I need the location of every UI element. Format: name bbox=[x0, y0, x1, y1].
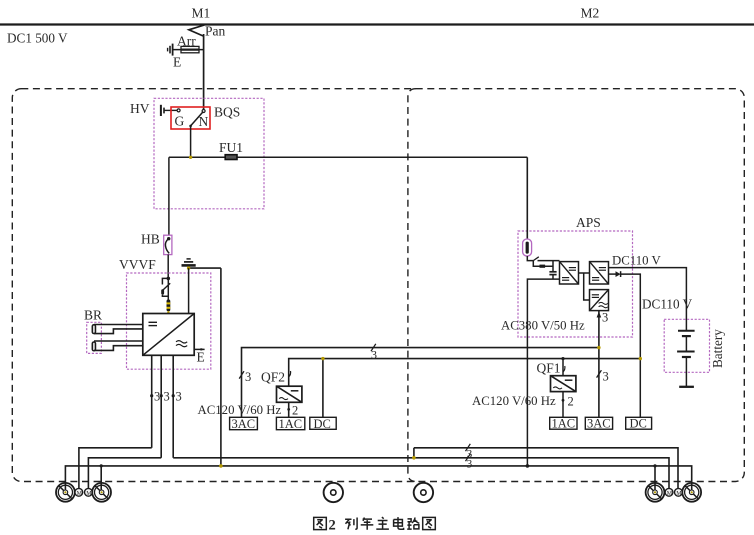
ground E of arrester bbox=[172, 44, 174, 56]
resistor BR1 bbox=[92, 325, 95, 334]
HV earthing contact bars bbox=[161, 105, 177, 116]
node wheel M1 bbox=[100, 464, 103, 467]
ground symbol above VVVF bbox=[182, 259, 196, 268]
filter capacitor APS bbox=[552, 261, 554, 272]
wire phase W bus to M2 motors bbox=[173, 458, 669, 489]
load box 3AC M1 bbox=[230, 417, 258, 429]
inverter U1 box VVVF bbox=[143, 314, 205, 356]
red box GN switch bbox=[171, 107, 210, 129]
phase marks 3 bbox=[150, 394, 153, 397]
caption hanzi TU (图) bbox=[314, 517, 327, 529]
mark 3 on 3AC drop bbox=[239, 371, 244, 378]
svg-text:E: E bbox=[197, 350, 205, 365]
load box 1AC M2 bbox=[550, 417, 577, 429]
load box 3AC M2 bbox=[585, 417, 612, 429]
switch BQS contacts and blade bbox=[169, 109, 527, 157]
mark 2 on QF2 output bbox=[287, 408, 290, 411]
mark 2 on QF1 output bbox=[562, 399, 565, 402]
svg-text:3AC: 3AC bbox=[232, 417, 256, 431]
svg-text:Arr: Arr bbox=[177, 34, 196, 49]
wire horizontal FU1 line to APS bbox=[169, 156, 527, 158]
wire earth node to right riser bbox=[189, 267, 221, 269]
caption hanzi ZHU (主) bbox=[376, 517, 389, 529]
load box 1AC M1 bbox=[276, 417, 304, 429]
fuse FU1 bbox=[225, 155, 237, 160]
svg-text:AC120 V/60 Hz: AC120 V/60 Hz bbox=[472, 394, 556, 408]
wire arrester branch bbox=[173, 49, 204, 51]
fuse F-APS bbox=[523, 239, 532, 256]
svg-text:3AC: 3AC bbox=[587, 417, 611, 431]
battery enclosure box bbox=[664, 319, 709, 372]
arrow mark on AC380 output bbox=[597, 312, 602, 318]
node AC380 bus junction bbox=[597, 346, 600, 349]
wire switch to FU1 line bbox=[190, 126, 192, 157]
blade QF2 bbox=[289, 371, 291, 377]
wire jumper M2 bus bbox=[413, 448, 415, 458]
svg-text:AC380 V/50 Hz: AC380 V/50 Hz bbox=[501, 319, 585, 333]
converter APS-2 DC110 bbox=[590, 262, 609, 284]
BR enclosure box bbox=[87, 322, 102, 353]
svg-text:HV: HV bbox=[130, 101, 150, 116]
svg-text:DC: DC bbox=[314, 417, 331, 431]
mark 3 on phase bus bbox=[466, 454, 471, 461]
svg-text:M: M bbox=[667, 491, 673, 497]
inverter APS-3 AC380 bbox=[590, 290, 609, 311]
svg-text:2: 2 bbox=[568, 395, 574, 409]
svg-text:DC1 500 V: DC1 500 V bbox=[7, 31, 68, 46]
wire QF2 to 1AC bbox=[288, 402, 290, 417]
svg-text:Battery: Battery bbox=[710, 329, 725, 368]
motor M1b bbox=[85, 488, 93, 496]
resistor BR2 bbox=[92, 342, 95, 351]
svg-text:2: 2 bbox=[292, 404, 298, 418]
wire DC110 bus M1 to M2 bbox=[289, 359, 641, 387]
caption hanzi CHE (车) bbox=[361, 518, 374, 530]
svg-text:Pan: Pan bbox=[205, 24, 226, 39]
wire M2 upper bus to motor M2b bbox=[414, 448, 678, 489]
node earth bbox=[187, 266, 190, 269]
node M2 wheel drop bbox=[653, 464, 656, 467]
wire HB to contactor bbox=[167, 255, 169, 279]
wire rail earth bus bbox=[65, 466, 691, 492]
caption hanzi LU (路) bbox=[407, 518, 419, 530]
motor M1a bbox=[75, 488, 83, 496]
load box DC M1 bbox=[310, 417, 336, 429]
svg-text:FU1: FU1 bbox=[219, 140, 243, 155]
wire earth into inverter bbox=[188, 268, 190, 313]
load box DC M2 bbox=[626, 417, 652, 429]
svg-text:M: M bbox=[676, 491, 682, 497]
svg-text:3: 3 bbox=[164, 390, 170, 404]
car body divider dashed M1/M2 bbox=[408, 89, 416, 482]
wire BQS down to HB bbox=[168, 157, 170, 235]
svg-text:3: 3 bbox=[602, 311, 608, 325]
contactor bypass loop inside VVVF bbox=[161, 278, 170, 296]
wire from FU1 line down into APS bbox=[526, 157, 528, 239]
svg-text:DC110 V: DC110 V bbox=[642, 297, 693, 312]
svg-text:BQS: BQS bbox=[214, 105, 240, 120]
wire phase U from inverter bbox=[151, 355, 153, 448]
svg-text:M: M bbox=[77, 491, 83, 497]
wire earth riser down to rail bus bbox=[220, 268, 222, 466]
svg-text:G: G bbox=[175, 114, 185, 129]
blade contact APS bbox=[533, 257, 539, 261]
wire phase V from inverter bbox=[160, 355, 162, 458]
idler wheel M2 bbox=[414, 483, 433, 502]
car body dashed outline M1+M2 bbox=[12, 89, 744, 482]
wire AC380 bus M1 to M2 bbox=[242, 348, 599, 418]
wire AC380 from APS-3 down bbox=[598, 311, 600, 418]
battery B1 plates bbox=[677, 331, 695, 387]
svg-text:APS: APS bbox=[576, 215, 601, 230]
svg-text:M: M bbox=[86, 491, 92, 497]
converter QF1 box bbox=[551, 376, 576, 392]
wires BR to inverter bbox=[94, 325, 143, 351]
motor M2a bbox=[665, 488, 673, 496]
idler wheel M1 bbox=[324, 483, 343, 502]
wire DC box drop M1 bbox=[322, 359, 324, 418]
wire contact to cap rail bbox=[538, 260, 560, 262]
wire fuse to contact bbox=[527, 256, 533, 261]
wheelset W1 M1 bbox=[56, 483, 75, 502]
node QF1 tap bbox=[561, 357, 564, 360]
motor M2b bbox=[675, 488, 683, 496]
wire APS-2 to diode bbox=[609, 273, 616, 275]
wire pantograph to BQS switch bbox=[203, 34, 205, 110]
svg-text:AC120 V/60 Hz: AC120 V/60 Hz bbox=[198, 403, 282, 417]
wheelset W2 M2 bbox=[682, 483, 701, 502]
terminal E of inverter bbox=[194, 348, 204, 350]
blade QF1 bbox=[563, 366, 565, 372]
wire QF1 to 1AC bbox=[562, 392, 564, 418]
svg-text:E: E bbox=[173, 55, 181, 70]
svg-text:QF1: QF1 bbox=[537, 361, 561, 376]
svg-text:3: 3 bbox=[245, 370, 251, 384]
svg-text:HB: HB bbox=[141, 232, 160, 247]
svg-text:3: 3 bbox=[176, 390, 182, 404]
converter QF2 box bbox=[277, 386, 302, 402]
node junction at switch/FU1 bbox=[189, 156, 192, 159]
svg-text:BR: BR bbox=[84, 308, 102, 323]
breaker HB bbox=[164, 235, 172, 254]
wire phase W from inverter bbox=[172, 355, 174, 458]
svg-text:DC: DC bbox=[630, 417, 647, 431]
striped sensor element bbox=[167, 299, 171, 311]
caption hanzi TU2 (图) bbox=[423, 517, 436, 529]
node earth riser bbox=[219, 464, 223, 468]
converter APS-1 chopper bbox=[560, 262, 579, 284]
wire QF1 drop bbox=[562, 359, 564, 376]
VVVF enclosure box bbox=[127, 273, 211, 369]
wire HV contact to G bbox=[164, 109, 177, 111]
svg-text:1AC: 1AC bbox=[279, 417, 303, 431]
diode D1 bbox=[616, 271, 621, 277]
wire wheel drop M1 right bbox=[100, 466, 102, 492]
wire phase V bend to motor M1b bbox=[88, 458, 161, 489]
mark 3 on 3AC drop M2 bbox=[597, 370, 602, 377]
node M2 jumper bbox=[412, 456, 416, 460]
caption hanzi DIAN (电) bbox=[394, 517, 404, 529]
svg-text:M2: M2 bbox=[581, 6, 600, 21]
svg-text:VVVF: VVVF bbox=[119, 257, 156, 272]
pantograph Pan bbox=[189, 25, 205, 36]
wire lower branch with fuse blob bbox=[533, 261, 553, 267]
svg-text:1AC: 1AC bbox=[552, 417, 576, 431]
mark 3 on M2 upper bus bbox=[466, 444, 471, 451]
svg-text:QF2: QF2 bbox=[261, 370, 285, 385]
wire wheel drop M2 left bbox=[654, 466, 656, 492]
wheelset W2 M1 bbox=[92, 483, 111, 502]
svg-text:3: 3 bbox=[467, 459, 473, 471]
svg-text:3: 3 bbox=[154, 390, 160, 404]
svg-text:3: 3 bbox=[371, 348, 377, 362]
node APS return bbox=[526, 464, 530, 468]
mark 3 on AC380 bus bbox=[371, 344, 376, 351]
svg-text:2: 2 bbox=[329, 517, 336, 533]
svg-text:M1: M1 bbox=[192, 6, 211, 21]
catenary line DC1500V bbox=[0, 23, 754, 25]
wire diode to DC110 bus riser bbox=[621, 274, 641, 417]
svg-text:3: 3 bbox=[603, 370, 609, 384]
APS enclosure box bbox=[518, 231, 633, 337]
BQS enclosure box bbox=[154, 98, 264, 209]
node DC110/DCbox bbox=[321, 357, 324, 360]
wire DC110 top to battery bbox=[609, 268, 687, 331]
caption hanzi LIE (列) bbox=[345, 518, 357, 530]
arrester Arr bbox=[181, 46, 199, 52]
wire APS negative rail bbox=[527, 279, 559, 466]
wheelset W1 M2 bbox=[646, 483, 665, 502]
wire tap down to APS-3 bbox=[584, 273, 590, 300]
wire APS-1 to APS-2 bbox=[579, 272, 590, 274]
wire into inverter top bbox=[167, 278, 169, 299]
wire phase U bend to motor M1a bbox=[79, 448, 152, 489]
svg-text:DC110 V: DC110 V bbox=[612, 254, 661, 268]
node DC110 end bbox=[639, 357, 642, 360]
